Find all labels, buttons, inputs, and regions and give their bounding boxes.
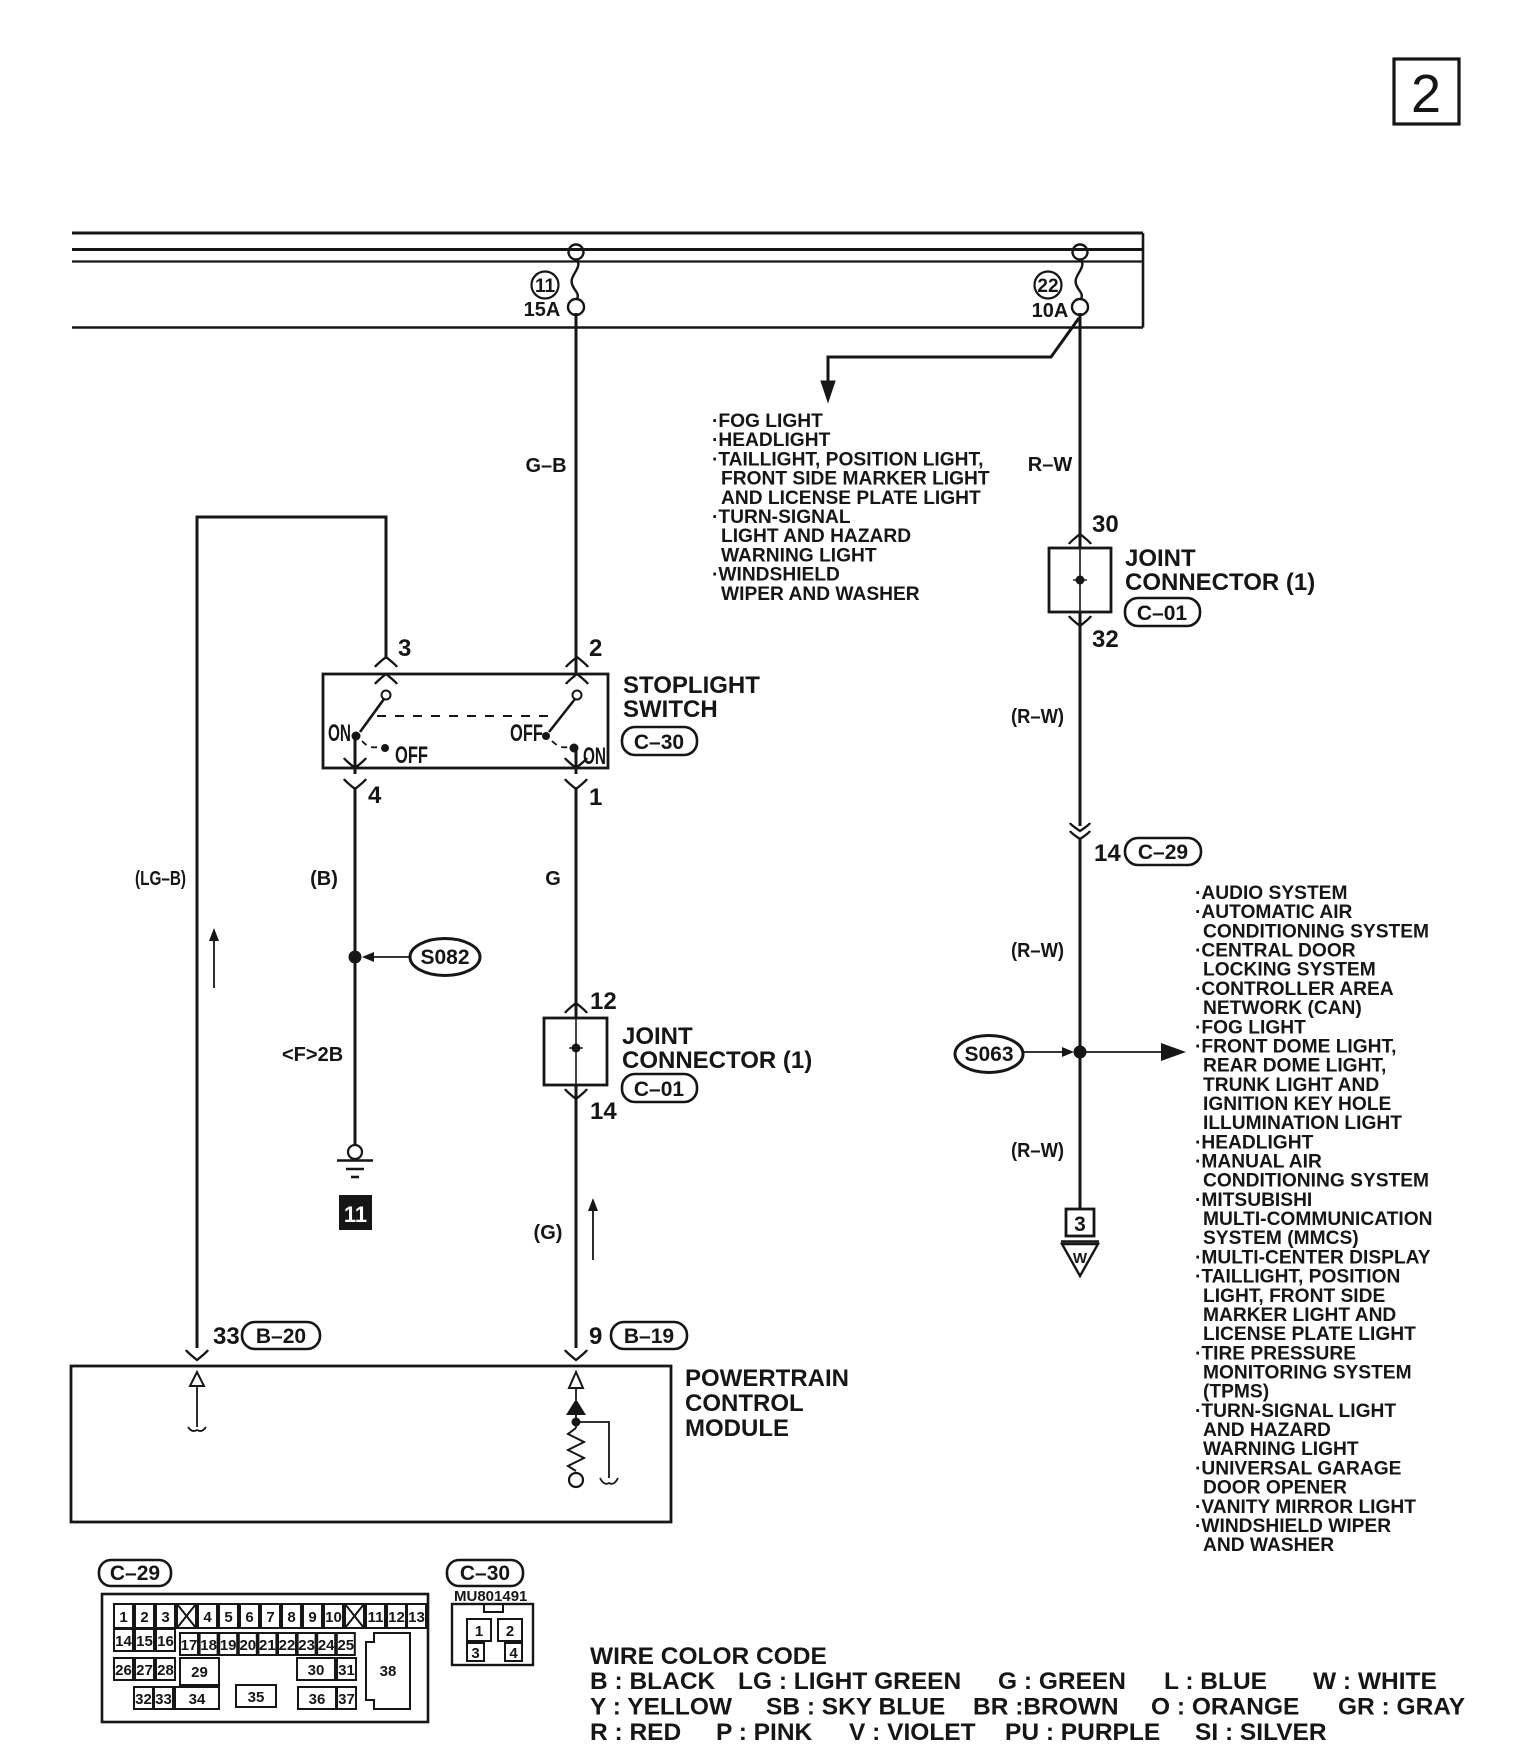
pin 30 — [1069, 511, 1119, 544]
svg-text:G–B: G–B — [525, 455, 566, 477]
svg-text:3: 3 — [471, 1645, 479, 1662]
label G-B — [525, 455, 566, 477]
svg-text:1: 1 — [119, 1609, 127, 1626]
svg-text:2: 2 — [589, 635, 602, 662]
wire color code legend — [590, 1643, 1465, 1746]
svg-text:·MITSUBISHI: ·MITSUBISHI — [1195, 1190, 1312, 1211]
svg-text:25: 25 — [337, 1637, 354, 1654]
svg-text:·FOG LIGHT: ·FOG LIGHT — [1195, 1017, 1306, 1038]
wire (R-W) from joint connector to C-29 — [1079, 612, 1082, 826]
PCM pin 33 B-20 — [186, 1322, 320, 1360]
joint connector (1) C-01 middle box — [544, 1018, 607, 1085]
stoplight switch box — [323, 674, 608, 768]
svg-text:19: 19 — [220, 1637, 237, 1654]
svg-text:MONITORING SYSTEM: MONITORING SYSTEM — [1203, 1363, 1412, 1384]
svg-text:TRUNK LIGHT AND: TRUNK LIGHT AND — [1203, 1075, 1379, 1096]
svg-text:11: 11 — [344, 1202, 367, 1227]
svg-text:4: 4 — [203, 1609, 212, 1626]
pin 3 — [375, 635, 411, 684]
svg-text:WIRE COLOR CODE: WIRE COLOR CODE — [590, 1643, 827, 1670]
PCM internal input arrow (pin 33) — [188, 1372, 206, 1431]
svg-text:2: 2 — [140, 1609, 148, 1626]
fuse F22 label (22) 10A — [1032, 272, 1069, 323]
svg-text:DOOR OPENER: DOOR OPENER — [1203, 1478, 1347, 1499]
svg-text:(G): (G) — [534, 1222, 563, 1244]
svg-text:·MULTI-CENTER DISPLAY: ·MULTI-CENTER DISPLAY — [1195, 1247, 1431, 1268]
pin 2 — [566, 635, 602, 684]
svg-text:28: 28 — [157, 1662, 174, 1679]
svg-text:37: 37 — [338, 1691, 355, 1708]
wire (G) from joint connector to PCM pin 9 — [575, 1085, 578, 1348]
svg-text:32: 32 — [135, 1691, 152, 1708]
svg-text:35: 35 — [248, 1689, 265, 1706]
svg-text:·FRONT DOME LIGHT,: ·FRONT DOME LIGHT, — [1195, 1036, 1396, 1057]
svg-text:REAR DOME LIGHT,: REAR DOME LIGHT, — [1203, 1056, 1386, 1077]
svg-text:·WINDSHIELD WIPER: ·WINDSHIELD WIPER — [1195, 1516, 1391, 1537]
label R-W — [1028, 454, 1073, 476]
svg-text:C–01: C–01 — [1137, 602, 1188, 625]
wire G-B from fuse 11 down to stoplight switch pin 2 — [575, 313, 578, 674]
svg-text:22: 22 — [279, 1637, 296, 1654]
pin 32 — [1069, 616, 1119, 653]
svg-text:MU801491: MU801491 — [454, 1588, 527, 1605]
label POWERTRAIN CONTROL MODULE — [685, 1365, 849, 1442]
load list for S063 feed — [1195, 883, 1433, 1556]
wire G from switch pin 1 to joint connector — [575, 787, 578, 1018]
ground reference box 11 — [339, 1195, 372, 1230]
svg-text:CONDITIONING SYSTEM: CONDITIONING SYSTEM — [1203, 1171, 1429, 1192]
svg-text:38: 38 — [380, 1663, 397, 1680]
svg-text:12: 12 — [388, 1609, 405, 1626]
svg-text:(R–W): (R–W) — [1011, 940, 1064, 962]
connector C-30 pinout — [447, 1560, 533, 1665]
load list for fuse 22 branch — [712, 411, 990, 605]
svg-text:11: 11 — [535, 276, 556, 297]
junction dot on B wire at S082 — [349, 951, 362, 964]
svg-text:31: 31 — [338, 1662, 355, 1679]
wire (R-W) from splice down to off-page connector — [1079, 1052, 1082, 1209]
svg-text:16: 16 — [157, 1633, 174, 1650]
junction dot on R-W wire at S063 — [1074, 1046, 1087, 1059]
svg-text:IGNITION KEY HOLE: IGNITION KEY HOLE — [1203, 1094, 1392, 1115]
junction block busbar — [72, 233, 1143, 328]
connector C-29 pinout — [99, 1560, 428, 1722]
svg-text:17: 17 — [181, 1637, 198, 1654]
fuse F11 — [568, 245, 584, 316]
label G — [545, 868, 561, 890]
svg-text:MARKER LIGHT AND: MARKER LIGHT AND — [1203, 1305, 1396, 1326]
joint connector (1) C-01 upper box — [1049, 548, 1111, 612]
svg-text:CONNECTOR (1): CONNECTOR (1) — [1125, 569, 1315, 596]
svg-text:·TURN-SIGNAL LIGHT: ·TURN-SIGNAL LIGHT — [1195, 1401, 1396, 1422]
svg-text:·WINDSHIELD: ·WINDSHIELD — [712, 565, 840, 586]
svg-text:2: 2 — [506, 1623, 514, 1640]
svg-text:8: 8 — [287, 1609, 295, 1626]
svg-text:(B): (B) — [310, 868, 338, 890]
svg-text:AND HAZARD: AND HAZARD — [1203, 1420, 1331, 1441]
svg-text:30: 30 — [308, 1662, 325, 1679]
svg-text:B–19: B–19 — [624, 1325, 674, 1348]
current direction arrow on G wire — [588, 1198, 598, 1260]
svg-text:11: 11 — [368, 1609, 384, 1626]
inline connector C-29 pin 14 — [1070, 823, 1201, 867]
svg-text:2: 2 — [1411, 64, 1441, 124]
svg-text:7: 7 — [266, 1609, 274, 1626]
splice S063 — [955, 1036, 1074, 1073]
svg-text:OFF: OFF — [395, 742, 428, 769]
svg-text:9: 9 — [308, 1609, 316, 1626]
svg-text:5: 5 — [224, 1609, 232, 1626]
svg-text:·HEADLIGHT: ·HEADLIGHT — [1195, 1132, 1314, 1153]
wire (R-W) from C-29 to splice S063 — [1079, 838, 1082, 1052]
label JOINT CONNECTOR (1) C-01 upper — [1125, 545, 1315, 626]
svg-text:B–20: B–20 — [256, 1325, 306, 1348]
switch pole right OFF contact — [510, 691, 606, 775]
svg-text:AND WASHER: AND WASHER — [1203, 1535, 1334, 1556]
pin 4 — [344, 758, 382, 809]
svg-text:·CENTRAL DOOR: ·CENTRAL DOOR — [1195, 941, 1356, 962]
svg-text:C–30: C–30 — [460, 1562, 510, 1585]
svg-text:·VANITY MIRROR LIGHT: ·VANITY MIRROR LIGHT — [1195, 1497, 1416, 1518]
svg-text:15A: 15A — [524, 299, 561, 321]
svg-text:·AUTOMATIC AIR: ·AUTOMATIC AIR — [1195, 902, 1353, 923]
label (R-W) lower — [1011, 1140, 1064, 1162]
svg-text:Y : YELLOWSB : SKY BLUEBR :BRO: Y : YELLOWSB : SKY BLUEBR :BROWNO : ORAN… — [590, 1694, 1465, 1721]
powertrain control module box — [71, 1366, 671, 1522]
svg-text:ILLUMINATION LIGHT: ILLUMINATION LIGHT — [1203, 1113, 1402, 1134]
svg-text:10A: 10A — [1032, 300, 1069, 322]
label JOINT CONNECTOR (1) C-01 middle — [622, 1023, 812, 1102]
svg-text:NETWORK (CAN): NETWORK (CAN) — [1203, 998, 1362, 1019]
svg-text:ON: ON — [583, 743, 606, 770]
svg-text:·AUDIO SYSTEM: ·AUDIO SYSTEM — [1195, 883, 1347, 904]
svg-text:·UNIVERSAL GARAGE: ·UNIVERSAL GARAGE — [1195, 1458, 1402, 1479]
svg-text:JOINT: JOINT — [1125, 545, 1196, 572]
svg-text:9: 9 — [589, 1323, 602, 1350]
label (G) — [534, 1222, 563, 1244]
label (LG-B) — [135, 868, 186, 890]
svg-text:36: 36 — [309, 1691, 326, 1708]
svg-text:30: 30 — [1092, 511, 1119, 538]
svg-text:12: 12 — [590, 988, 617, 1015]
PCM pin 9 B-19 — [565, 1322, 687, 1360]
svg-text:LIGHT AND HAZARD: LIGHT AND HAZARD — [721, 526, 911, 547]
svg-text:(R–W): (R–W) — [1011, 1140, 1064, 1162]
svg-text:MODULE: MODULE — [685, 1415, 789, 1442]
ground symbol — [337, 1145, 373, 1177]
svg-text:1: 1 — [589, 784, 602, 811]
svg-text:33: 33 — [155, 1691, 172, 1708]
svg-text:·FOG LIGHT: ·FOG LIGHT — [712, 411, 823, 432]
svg-text:15: 15 — [136, 1633, 153, 1650]
svg-text:C–29: C–29 — [1138, 841, 1188, 864]
svg-text:CONDITIONING SYSTEM: CONDITIONING SYSTEM — [1203, 921, 1429, 942]
label (B) — [310, 868, 338, 890]
svg-text:B : BLACKLG : LIGHT GREENG : G: B : BLACKLG : LIGHT GREENG : GREENL : BL… — [590, 1668, 1437, 1695]
svg-text:29: 29 — [191, 1664, 208, 1681]
svg-text:S082: S082 — [420, 946, 469, 969]
svg-text:26: 26 — [115, 1662, 132, 1679]
svg-text:24: 24 — [318, 1637, 335, 1654]
svg-text:LOCKING SYSTEM: LOCKING SYSTEM — [1203, 960, 1376, 981]
current direction arrow on LG-B wire — [209, 928, 219, 988]
svg-text:FRONT SIDE MARKER LIGHT: FRONT SIDE MARKER LIGHT — [721, 469, 990, 490]
page number 2 — [1394, 59, 1459, 124]
svg-text:C–01: C–01 — [634, 1078, 685, 1101]
svg-text:14: 14 — [590, 1098, 617, 1125]
svg-text:18: 18 — [200, 1637, 217, 1654]
label (R-W) upper — [1011, 706, 1064, 728]
svg-text:G: G — [545, 868, 561, 890]
pin 1 — [565, 758, 602, 811]
svg-text:4: 4 — [509, 1645, 518, 1662]
svg-text:CONNECTOR (1): CONNECTOR (1) — [622, 1047, 812, 1074]
wire LG-B loop from switch pin 3 to PCM pin 33 — [197, 517, 386, 1348]
svg-text:WARNING LIGHT: WARNING LIGHT — [721, 545, 877, 566]
svg-text:6: 6 — [245, 1609, 253, 1626]
fuse F22 — [1072, 245, 1088, 316]
svg-text:32: 32 — [1092, 626, 1119, 653]
svg-text:·TAILLIGHT, POSITION LIGHT,: ·TAILLIGHT, POSITION LIGHT, — [712, 449, 983, 470]
PCM internal diode and resistor (pin 9) — [566, 1372, 618, 1487]
label F 2B — [282, 1044, 343, 1066]
svg-text:·TAILLIGHT, POSITION: ·TAILLIGHT, POSITION — [1195, 1267, 1400, 1288]
svg-text:4: 4 — [368, 782, 382, 809]
svg-text:23: 23 — [298, 1637, 315, 1654]
label STOPLIGHT SWITCH C-30 — [622, 672, 760, 755]
svg-text:·HEADLIGHT: ·HEADLIGHT — [712, 430, 831, 451]
svg-text:STOPLIGHT: STOPLIGHT — [623, 672, 760, 699]
svg-text:·CONTROLLER AREA: ·CONTROLLER AREA — [1195, 979, 1394, 1000]
svg-text:14: 14 — [115, 1633, 132, 1650]
svg-text:27: 27 — [136, 1662, 153, 1679]
svg-text:LIGHT, FRONT SIDE: LIGHT, FRONT SIDE — [1203, 1286, 1385, 1307]
svg-text:JOINT: JOINT — [622, 1023, 693, 1050]
svg-text:WARNING LIGHT: WARNING LIGHT — [1203, 1439, 1359, 1460]
svg-text:·TIRE PRESSURE: ·TIRE PRESSURE — [1195, 1343, 1356, 1364]
wire R-W from fuse 22 down to joint connector — [1079, 313, 1082, 548]
svg-text:<F>2B: <F>2B — [282, 1044, 343, 1066]
svg-text:W: W — [1073, 1250, 1088, 1267]
svg-text:(R–W): (R–W) — [1011, 706, 1064, 728]
svg-text:OFF: OFF — [510, 720, 543, 747]
svg-text:MULTI-COMMUNICATION: MULTI-COMMUNICATION — [1203, 1209, 1433, 1230]
svg-text:POWERTRAIN: POWERTRAIN — [685, 1365, 849, 1392]
svg-text:1: 1 — [475, 1623, 483, 1640]
svg-text:14: 14 — [1094, 840, 1121, 867]
svg-text:SWITCH: SWITCH — [623, 696, 718, 723]
svg-text:(TPMS): (TPMS) — [1203, 1382, 1269, 1403]
svg-text:C–29: C–29 — [110, 1562, 160, 1585]
pin 14 of joint connector — [565, 1089, 617, 1125]
splice S082 — [362, 939, 480, 976]
svg-text:3: 3 — [398, 635, 411, 662]
svg-text:22: 22 — [1037, 276, 1058, 297]
svg-text:34: 34 — [189, 1691, 206, 1708]
svg-text:SYSTEM (MMCS): SYSTEM (MMCS) — [1203, 1228, 1359, 1249]
svg-text:C–30: C–30 — [634, 731, 684, 754]
svg-text:CONTROL: CONTROL — [685, 1390, 804, 1417]
switch pole left ON contact — [328, 691, 428, 775]
svg-text:3: 3 — [161, 1609, 169, 1626]
svg-text:R–W: R–W — [1028, 454, 1073, 476]
label (R-W) middle — [1011, 940, 1064, 962]
arrow from splice to load list — [1086, 1043, 1186, 1061]
svg-text:R : REDP : PINKV : VIOLETPU :: R : REDP : PINKV : VIOLETPU : PURPLESI :… — [590, 1719, 1327, 1746]
wire B from switch pin 4 to ground — [354, 787, 357, 1145]
svg-text:ON: ON — [328, 720, 351, 747]
off-page connector 3 W — [1061, 1209, 1099, 1276]
svg-text:13: 13 — [408, 1609, 425, 1626]
svg-text:S063: S063 — [964, 1043, 1013, 1066]
svg-text:33: 33 — [213, 1323, 240, 1350]
fuse F11 label (11) 15A — [524, 272, 561, 322]
svg-text:10: 10 — [325, 1609, 342, 1626]
svg-text:·MANUAL AIR: ·MANUAL AIR — [1195, 1152, 1322, 1173]
svg-text:21: 21 — [259, 1637, 276, 1654]
pin 12 — [565, 988, 617, 1015]
svg-text:WIPER AND WASHER: WIPER AND WASHER — [721, 584, 920, 605]
svg-text:20: 20 — [239, 1637, 256, 1654]
branch wire with arrow to other systems — [821, 318, 1079, 402]
svg-text:LICENSE PLATE LIGHT: LICENSE PLATE LIGHT — [1203, 1324, 1416, 1345]
svg-text:·TURN-SIGNAL: ·TURN-SIGNAL — [712, 507, 851, 528]
svg-text:(LG–B): (LG–B) — [135, 868, 186, 890]
svg-text:3: 3 — [1074, 1213, 1086, 1236]
svg-text:AND LICENSE PLATE LIGHT: AND LICENSE PLATE LIGHT — [721, 488, 981, 509]
